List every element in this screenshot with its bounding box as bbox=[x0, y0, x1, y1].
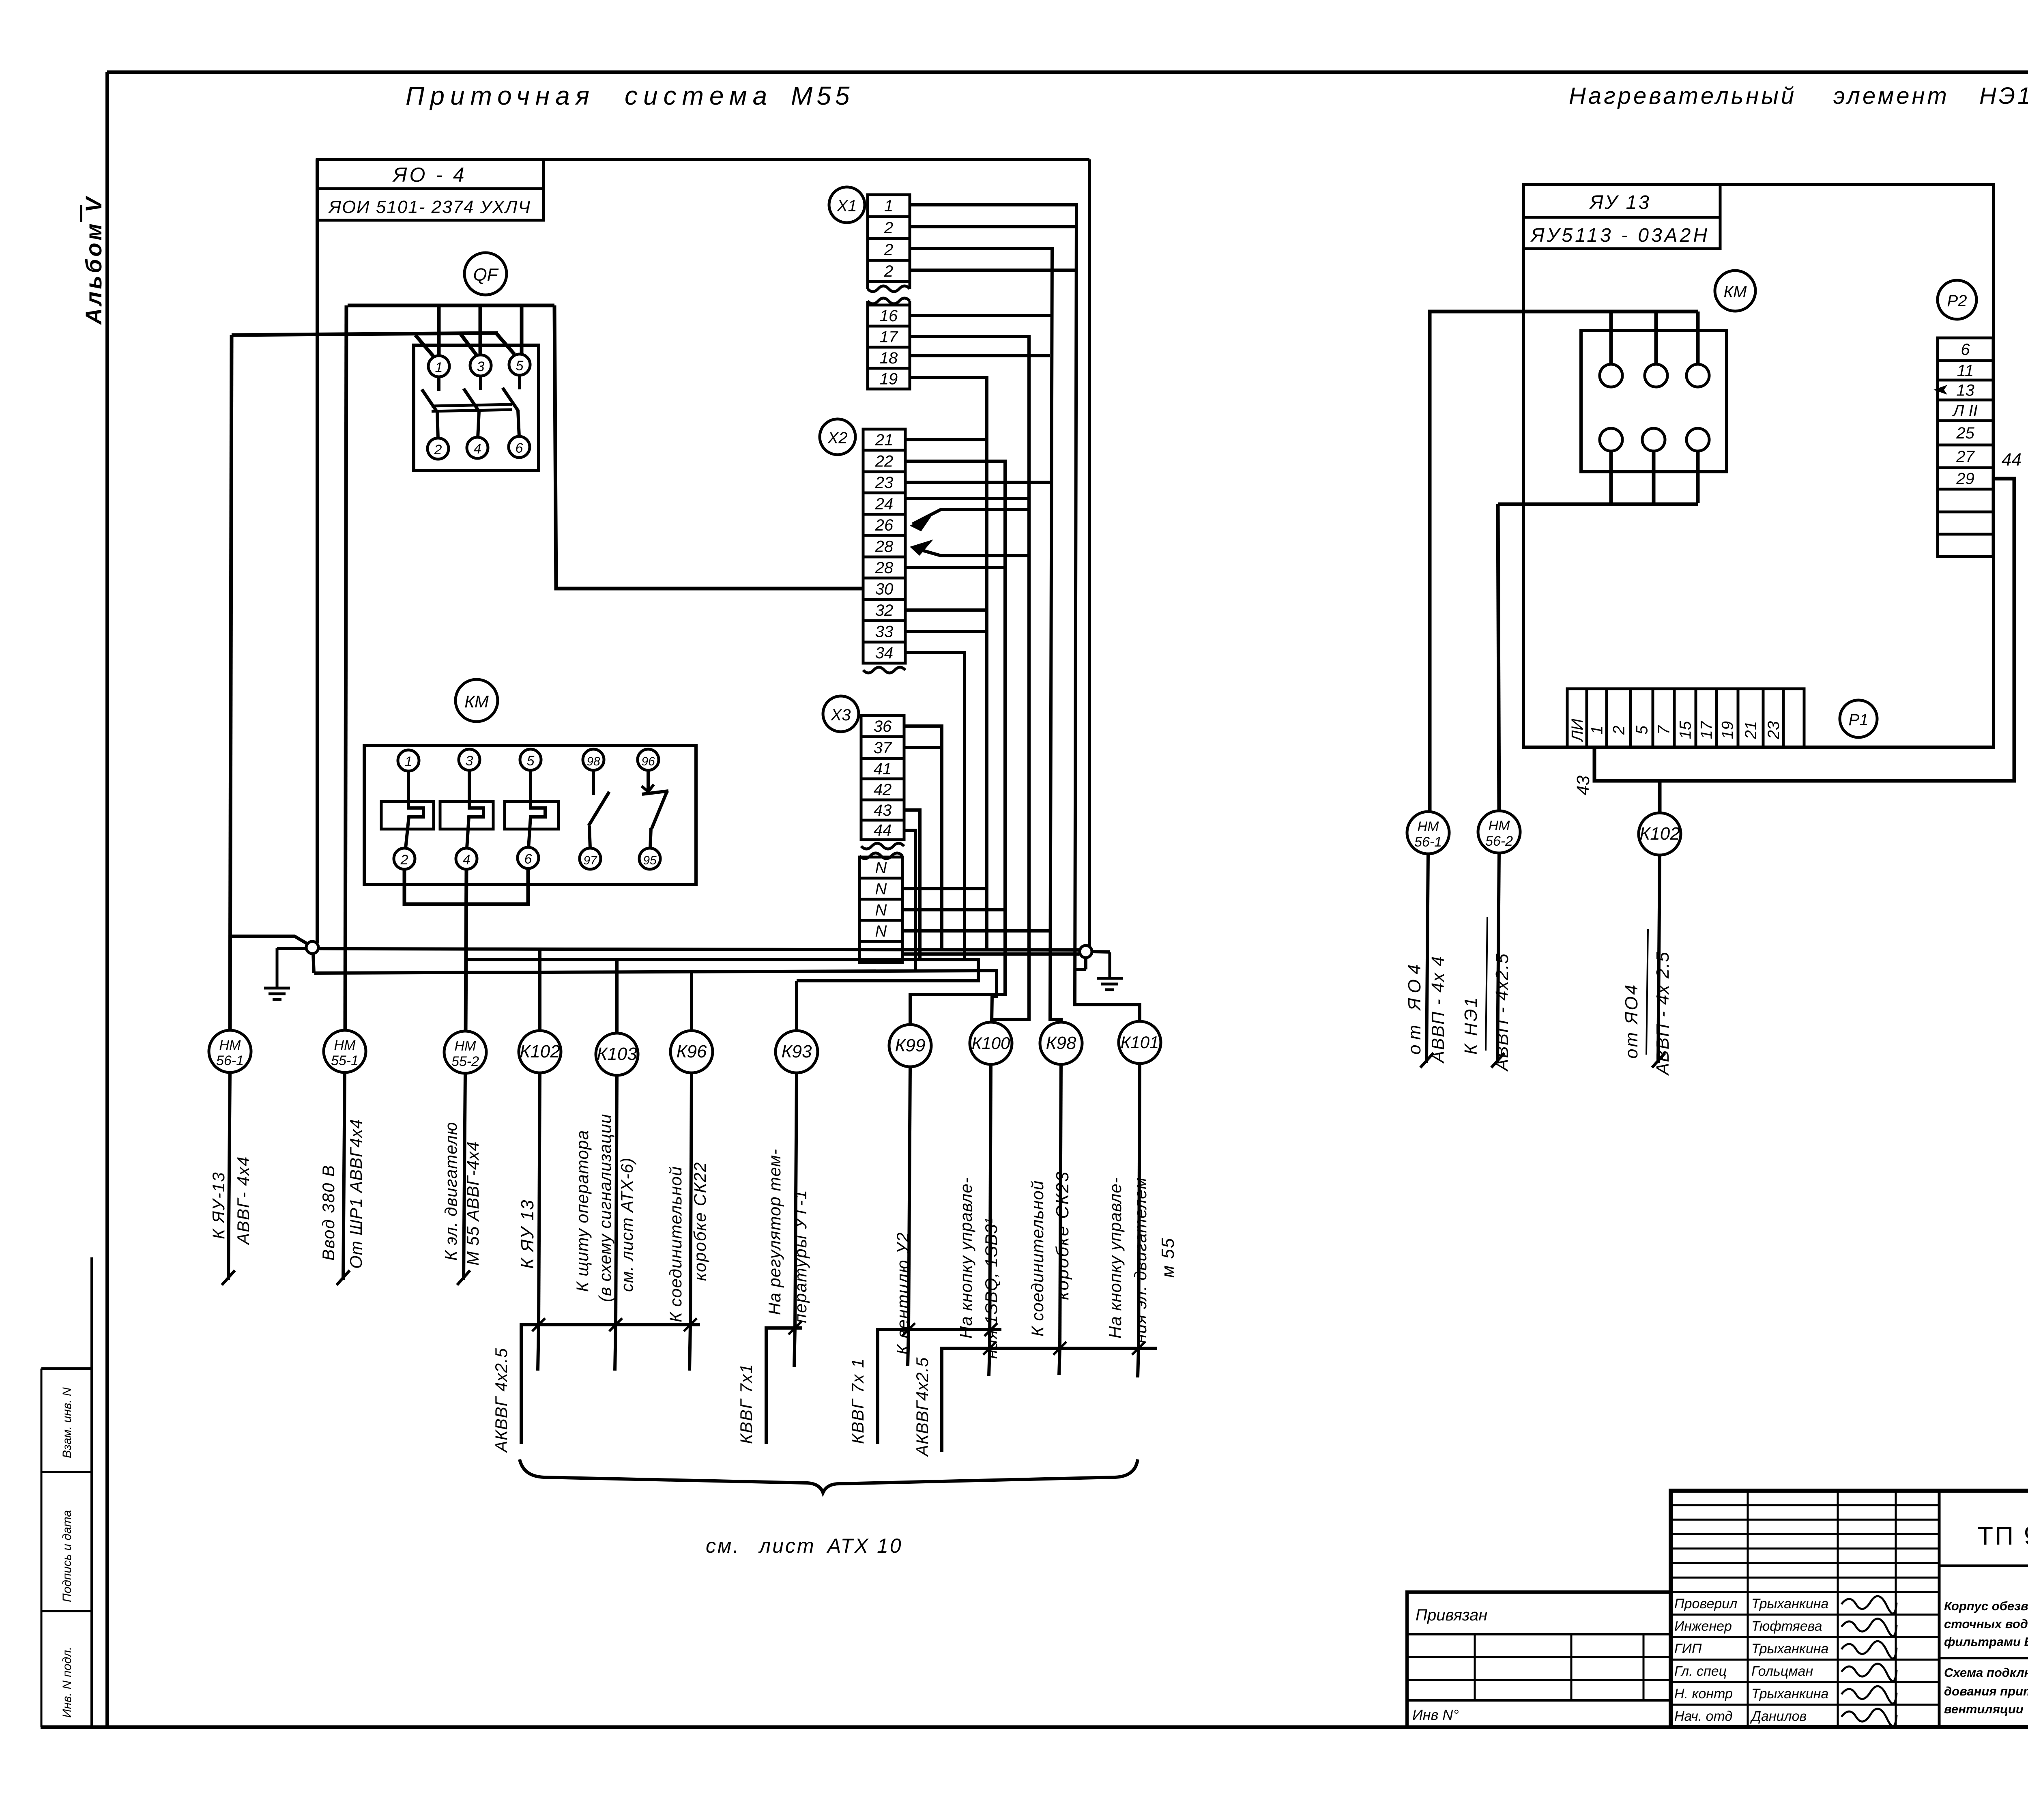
KM pin circle 5 bbox=[520, 749, 541, 770]
wire: K102 riser to bus A bbox=[538, 949, 541, 1031]
svg-text:2: 2 bbox=[434, 442, 442, 458]
terminal block X1 lower cells 16-19 bbox=[868, 305, 910, 389]
cable circle K103 bbox=[596, 1033, 638, 1075]
svg-text:фильтрами Бсх ВУ-40-30: фильтрами Бсх ВУ-40-30 bbox=[1944, 1635, 2028, 1649]
wire: X3 cell44 right then vertical down crossing buses bbox=[904, 830, 915, 972]
svg-text:4: 4 bbox=[463, 852, 470, 868]
terminal block X3 N cells bbox=[859, 857, 902, 963]
wire: X3 cell36 right then vertical down to bus A bbox=[904, 726, 942, 950]
cable tail K102 with label K YaU 13 bbox=[518, 1073, 540, 1325]
wire: phase drop 1 to QF pole 1 bbox=[437, 305, 441, 357]
svg-text:56-1: 56-1 bbox=[1414, 834, 1442, 850]
cable circle NM 56-1 (left) bbox=[209, 1030, 251, 1072]
terminal strip P2 bbox=[1938, 338, 1993, 557]
svg-text:Х1: Х1 bbox=[837, 197, 857, 215]
wire: X2 cell26 arrow line bbox=[910, 509, 1028, 531]
terminal block X2 cells bbox=[863, 429, 905, 663]
KM main contact pole 3 bbox=[505, 770, 559, 848]
svg-text:ТП 902-5-36.86: ТП 902-5-36.86 bbox=[1977, 1521, 2028, 1550]
wire: P2 cell29 to 44 loop down and around to P1 bbox=[1594, 479, 2014, 781]
wire: KM bottom pins to collector bus bbox=[1498, 451, 1698, 504]
cable circle K100 bbox=[970, 1022, 1012, 1064]
svg-text:30: 30 bbox=[875, 580, 894, 598]
svg-text:Альбом V: Альбом V bbox=[81, 195, 106, 325]
KM aux NC contact 96-95 bbox=[642, 770, 668, 848]
KM pin circle 3 bbox=[459, 749, 480, 770]
label box YaO-4 bbox=[317, 159, 544, 220]
contactor KM box (right) bbox=[1581, 331, 1727, 472]
svg-text:ния 1SBQ, 1SB3¹: ния 1SBQ, 1SB3¹ bbox=[982, 1218, 1001, 1359]
wire: KM 2-6 link below box bbox=[404, 868, 528, 904]
svg-text:Данилов: Данилов bbox=[1750, 1709, 1807, 1724]
terminal block X2 label circle bbox=[820, 419, 855, 455]
terminal strip P1 bbox=[1567, 689, 1804, 747]
terminal block X2 bottom tear bbox=[863, 667, 905, 673]
svg-text:ния эл. двигателем: ния эл. двигателем bbox=[1131, 1177, 1150, 1343]
wire: X1 cell16 branch bbox=[910, 314, 1051, 317]
svg-text:коробке СК23: коробке СК23 bbox=[1053, 1171, 1072, 1300]
svg-text:лист: лист bbox=[758, 1534, 816, 1557]
svg-text:25: 25 bbox=[1956, 424, 1974, 442]
svg-text:6: 6 bbox=[1961, 341, 1970, 359]
terminal block X3 tear bbox=[859, 843, 904, 859]
svg-text:см.: см. bbox=[706, 1534, 740, 1557]
wire: QF feed bus bbox=[348, 304, 554, 307]
svg-text:К102: К102 bbox=[1639, 824, 1680, 844]
svg-text:5: 5 bbox=[527, 753, 535, 769]
title block role texts bbox=[1674, 1596, 1828, 1724]
svg-text:К ЯУ 13: К ЯУ 13 bbox=[518, 1199, 537, 1269]
svg-text:К ЯУ-13: К ЯУ-13 bbox=[209, 1171, 228, 1239]
svg-text:37: 37 bbox=[874, 739, 892, 757]
svg-text:КВВГ 7х 1: КВВГ 7х 1 bbox=[848, 1358, 867, 1444]
svg-text:N: N bbox=[875, 922, 887, 940]
cable tail NM56-1 right with label ot YaO4 AVVP-4x4 bbox=[1405, 854, 1448, 1068]
wire: X1 cell2 branch bbox=[910, 225, 1076, 228]
cable circle NM 55-1 bbox=[324, 1030, 366, 1072]
svg-text:2: 2 bbox=[884, 219, 893, 237]
svg-text:96: 96 bbox=[641, 755, 655, 768]
cable tail K99 with label K ventilyu U2 bbox=[893, 1067, 912, 1355]
KM pin circle 96 bbox=[638, 749, 659, 770]
contactor KM label circle bbox=[455, 679, 498, 722]
svg-text:коробке СК22: коробке СК22 bbox=[690, 1162, 709, 1281]
svg-text:42: 42 bbox=[874, 781, 892, 799]
svg-text:28: 28 bbox=[875, 559, 894, 577]
svg-text:44: 44 bbox=[2002, 450, 2022, 470]
wire: X1 cell1 right then long vertical to K101 bbox=[910, 205, 1140, 1021]
svg-text:от ЯО4: от ЯО4 bbox=[1622, 983, 1641, 1059]
svg-text:Нагревательный: Нагревательный bbox=[1569, 83, 1796, 109]
cable tail NM55-2 with label k el. dvigatelyu M55 bbox=[441, 1073, 482, 1285]
svg-text:5: 5 bbox=[516, 358, 524, 374]
vertical text Album V bbox=[81, 195, 106, 325]
KM pin circle 2 bbox=[394, 848, 415, 869]
KM pin circle 4 bbox=[456, 848, 477, 869]
svg-text:Привязан: Привязан bbox=[1416, 1606, 1487, 1624]
wire: J1 stub down to bus B bbox=[313, 954, 314, 973]
KM right bottom pin circle c bbox=[1686, 428, 1709, 451]
gather line group 1 with cable label AKVVG 4x2.5 bbox=[492, 1318, 700, 1453]
KM pin circle 98 bbox=[583, 749, 604, 770]
svg-text:Схема подключения обору-: Схема подключения обору- bbox=[1944, 1665, 2028, 1680]
svg-text:От ШР1 АВВГ4х4: От ШР1 АВВГ4х4 bbox=[346, 1119, 365, 1269]
cable tail NM56-2 right with label K NE1 AVVP-4x2.5 bbox=[1461, 853, 1512, 1072]
svg-text:АВВП - 4х 2.5: АВВП - 4х 2.5 bbox=[1653, 951, 1673, 1076]
wire: K103 riser to bus M bbox=[615, 960, 619, 1033]
KM pin circle 1 bbox=[398, 750, 419, 771]
svg-text:ЯОИ 5101- 2374 УХЛЧ: ЯОИ 5101- 2374 УХЛЧ bbox=[328, 197, 531, 217]
svg-text:23: 23 bbox=[875, 474, 894, 492]
svg-text:Подпись и дата: Подпись и дата bbox=[60, 1510, 74, 1602]
KM right top pin circle b bbox=[1645, 364, 1667, 387]
wire: X2 cell33 branch bbox=[905, 630, 987, 633]
circuit breaker QF device box bbox=[414, 345, 539, 471]
svg-text:Проверил: Проверил bbox=[1674, 1596, 1737, 1612]
svg-text:1: 1 bbox=[405, 754, 412, 769]
contactor KM box bbox=[364, 746, 696, 885]
svg-text:Л II: Л II bbox=[1952, 402, 1978, 420]
svg-text:(в схему сигнализации: (в схему сигнализации bbox=[595, 1114, 614, 1302]
svg-text:27: 27 bbox=[1956, 448, 1975, 466]
wire: K102 right riser bbox=[1658, 781, 1662, 813]
svg-text:АВВП - 4х 4: АВВП - 4х 4 bbox=[1428, 956, 1448, 1064]
svg-text:ЯУ5113 - 03А2Н: ЯУ5113 - 03А2Н bbox=[1530, 225, 1710, 246]
cable circle K98 bbox=[1040, 1022, 1082, 1064]
svg-text:1: 1 bbox=[1588, 726, 1606, 735]
QF pin circle 4 bbox=[467, 437, 488, 458]
svg-text:К103: К103 bbox=[597, 1044, 637, 1064]
svg-text:КМ: КМ bbox=[464, 692, 489, 711]
svg-text:26: 26 bbox=[875, 516, 894, 534]
wire: phase drop 2 to QF pole 3 bbox=[479, 305, 482, 356]
svg-text:33: 33 bbox=[875, 623, 894, 641]
svg-text:М 55 АВВГ-4х4: М 55 АВВГ-4х4 bbox=[463, 1141, 482, 1266]
svg-text:Нач. отд: Нач. отд bbox=[1674, 1709, 1732, 1724]
cable circle K93 bbox=[776, 1031, 818, 1073]
svg-text:К соединительной: К соединительной bbox=[666, 1166, 685, 1322]
svg-text:вентиляции: вентиляции bbox=[1944, 1702, 2024, 1716]
svg-text:К100: К100 bbox=[972, 1034, 1010, 1053]
KM main contact pole 1 bbox=[381, 771, 434, 848]
text sm. list ATKh 10 bbox=[706, 1534, 903, 1557]
QF pin circle 2 bbox=[428, 438, 449, 459]
wire: X2 cell28b branch bbox=[905, 566, 1005, 569]
title block left columns bbox=[1748, 1491, 1896, 1727]
cable circle K99 bbox=[889, 1025, 931, 1067]
svg-text:23: 23 bbox=[1765, 721, 1783, 740]
wire: X3 N3 branch bbox=[902, 929, 1051, 933]
wire: diagonal into QF pole 3 bbox=[461, 334, 477, 356]
wire: X1 cell19 right then long vertical to bus A bbox=[910, 378, 987, 950]
svg-text:КВВГ 7х1: КВВГ 7х1 bbox=[737, 1363, 756, 1444]
ground symbol left bbox=[276, 948, 279, 988]
svg-text:43: 43 bbox=[874, 801, 892, 819]
svg-text:Тюфтяева: Тюфтяева bbox=[1751, 1619, 1822, 1634]
wire: diagonal into QF pole 5 bbox=[496, 333, 514, 354]
svg-text:На кнопку управле-: На кнопку управле- bbox=[1106, 1177, 1125, 1339]
wire: X2 cell34 right then long vertical to gather bus M bbox=[905, 653, 965, 960]
svg-text:ЯО - 4: ЯО - 4 bbox=[392, 163, 466, 186]
svg-text:4: 4 bbox=[474, 441, 481, 457]
svg-text:м 55: м 55 bbox=[1158, 1238, 1178, 1278]
wire: K96 riser to bus B bbox=[690, 971, 693, 1031]
svg-text:Х3: Х3 bbox=[831, 706, 851, 724]
wire: X1 cell17 right then long vertical to K100 bbox=[910, 337, 1029, 1019]
wire: X3 N2 right then down to K99 gather? vertical 2478 already: branch only bbox=[902, 908, 1005, 911]
relay P2 label circle bbox=[1938, 280, 1976, 319]
cable circle K102 (left) bbox=[519, 1031, 561, 1073]
wire: X1 cell2b branch bbox=[910, 269, 1075, 272]
svg-text:На кнопку управле-: На кнопку управле- bbox=[956, 1177, 975, 1339]
svg-text:Приточная: Приточная bbox=[406, 81, 595, 110]
svg-text:95: 95 bbox=[643, 854, 657, 867]
cable tail K103 with label K schitu operatora bbox=[573, 1075, 636, 1325]
svg-text:N: N bbox=[875, 901, 887, 919]
svg-text:18: 18 bbox=[880, 349, 898, 367]
wire: X3 cell37 branch bbox=[904, 746, 941, 749]
svg-text:16: 16 bbox=[880, 307, 898, 325]
cable tail K102 right with label ot YaO4 AVVP-4x2.5 bbox=[1622, 855, 1673, 1076]
svg-text:2: 2 bbox=[400, 852, 408, 868]
svg-text:7: 7 bbox=[1655, 725, 1673, 735]
title block left extension table Privyazan bbox=[1407, 1592, 1671, 1727]
svg-text:2: 2 bbox=[1610, 726, 1628, 735]
circuit breaker QF label circle bbox=[464, 253, 507, 295]
wire: X2 cell28 arrow line bbox=[910, 539, 1027, 556]
svg-text:Гл. спец: Гл. спец bbox=[1674, 1664, 1727, 1679]
gather line group 4 with cable label AKVVG4x2.5 bbox=[913, 1342, 1157, 1457]
KM pin circle 6 bbox=[518, 847, 539, 868]
svg-text:Инженер: Инженер bbox=[1674, 1619, 1732, 1634]
wire: X1 cell2a right then long vertical to K98 bbox=[910, 249, 1061, 1022]
wire: X2 cell23 branch bbox=[905, 481, 1050, 484]
svg-text:3: 3 bbox=[477, 359, 485, 374]
svg-text:15: 15 bbox=[1677, 721, 1695, 739]
svg-text:НМ: НМ bbox=[219, 1038, 241, 1053]
svg-text:НМ: НМ bbox=[1489, 818, 1510, 834]
svg-text:13: 13 bbox=[1956, 382, 1974, 400]
svg-text:21: 21 bbox=[1742, 721, 1760, 740]
wire: K93 riser bbox=[795, 981, 798, 1031]
terminal block X3 cells 36-44 bbox=[861, 716, 904, 840]
svg-text:см. лист АТХ-6): см. лист АТХ-6) bbox=[617, 1157, 636, 1292]
svg-text:К102: К102 bbox=[520, 1042, 560, 1061]
svg-text:44: 44 bbox=[874, 821, 892, 839]
curly brace over cable group bbox=[520, 1459, 1138, 1493]
KM right top pin circle a bbox=[1600, 364, 1622, 387]
gather line group 3 with cable label KVVG 7x1 second bbox=[848, 1323, 1001, 1444]
cable circle K101 bbox=[1119, 1021, 1161, 1064]
QF pole 1 blade bbox=[422, 377, 439, 439]
QF pin circle 1 bbox=[428, 356, 449, 377]
panel box YaU13 outline bbox=[1523, 185, 1994, 747]
svg-text:1: 1 bbox=[435, 360, 443, 375]
svg-text:6: 6 bbox=[516, 440, 523, 456]
cable circle K96 bbox=[670, 1031, 713, 1073]
svg-text:98: 98 bbox=[586, 755, 600, 768]
wire: from QF bus right end down and right to X2 cell 30 bbox=[554, 305, 863, 589]
wire: KM pin 4 down to cable NM55-2 bbox=[466, 869, 466, 1030]
title block upper small rows bbox=[1671, 1491, 2028, 1727]
QF trip tie bar bbox=[432, 404, 512, 411]
gather line group 2 with cable label KVVG 7x1 bbox=[737, 1321, 802, 1444]
KM pin circle 97 bbox=[580, 848, 601, 869]
svg-text:сточных вод с 6 вакуум: сточных вод с 6 вакуум bbox=[1944, 1617, 2028, 1631]
svg-text:3: 3 bbox=[466, 753, 473, 769]
svg-text:Инв. N подл.: Инв. N подл. bbox=[60, 1647, 74, 1718]
svg-text:29: 29 bbox=[1956, 470, 1974, 488]
terminal block X1 tear bbox=[868, 281, 910, 305]
svg-text:НМ: НМ bbox=[1418, 819, 1439, 834]
svg-text:К эл. двигателю: К эл. двигателю bbox=[441, 1122, 460, 1261]
svg-text:Трыханкина: Трыханкина bbox=[1751, 1686, 1828, 1702]
svg-text:55-1: 55-1 bbox=[331, 1053, 359, 1068]
svg-text:пературы УТ-1: пературы УТ-1 bbox=[791, 1189, 810, 1323]
svg-text:19: 19 bbox=[1719, 721, 1737, 739]
svg-text:41: 41 bbox=[874, 760, 892, 778]
svg-text:ГИП: ГИП bbox=[1674, 1641, 1702, 1657]
terminal block X1 upper cells 1-2-2-2 bbox=[868, 195, 910, 281]
svg-text:28: 28 bbox=[875, 538, 894, 556]
svg-text:Х2: Х2 bbox=[827, 429, 848, 447]
wire: drop to KM top pin c bbox=[1696, 312, 1700, 364]
svg-text:К93: К93 bbox=[782, 1042, 812, 1061]
svg-text:Корпус обезвоживания осадка: Корпус обезвоживания осадка bbox=[1944, 1599, 2028, 1613]
QF pin circle 6 bbox=[509, 436, 530, 458]
svg-text:56-2: 56-2 bbox=[1485, 834, 1513, 849]
cable circle K102 (right) bbox=[1639, 813, 1681, 855]
svg-text:К99: К99 bbox=[895, 1036, 926, 1055]
wire: X3 N1 branch bbox=[902, 887, 987, 890]
svg-text:1: 1 bbox=[884, 197, 893, 215]
svg-text:2: 2 bbox=[884, 262, 893, 280]
svg-text:дования приточной системы: дования приточной системы bbox=[1944, 1684, 2028, 1698]
cable tail NM56-1 with label K YaU-13 / AVVG-4x4 bbox=[209, 1072, 253, 1285]
cable tail NM55-1 with label Vvod 380V bbox=[319, 1072, 365, 1285]
svg-text:56-1: 56-1 bbox=[216, 1053, 244, 1068]
svg-text:элемент: элемент bbox=[1833, 83, 1949, 109]
svg-text:НЭ1: НЭ1 bbox=[1979, 83, 2028, 109]
svg-text:ЯУ 13: ЯУ 13 bbox=[1589, 192, 1651, 213]
svg-text:КМ: КМ bbox=[1724, 283, 1747, 301]
svg-text:19: 19 bbox=[880, 370, 898, 388]
svg-text:34: 34 bbox=[875, 644, 894, 662]
svg-text:N: N bbox=[875, 880, 887, 898]
svg-text:К96: К96 bbox=[677, 1042, 707, 1061]
panel box YaO-4 outline bbox=[317, 159, 1089, 947]
cable circle NM 56-2 (right) bbox=[1478, 811, 1520, 853]
arrow mark at P2 cell 13 bbox=[1933, 385, 1947, 395]
QF pole 2 blade bbox=[464, 376, 481, 438]
wire: drop to KM top pin a bbox=[1609, 312, 1613, 364]
svg-text:17: 17 bbox=[1698, 720, 1716, 739]
KM right bottom pin circle a bbox=[1600, 428, 1622, 451]
cable tail K96 with label K soedinitelnoy korobke SK22 bbox=[666, 1073, 709, 1325]
wire: X1 cell18 branch bbox=[910, 354, 1050, 357]
svg-text:17: 17 bbox=[880, 328, 898, 346]
svg-text:НМ: НМ bbox=[334, 1038, 356, 1053]
svg-text:АВВГ- 4х4: АВВГ- 4х4 bbox=[234, 1156, 253, 1246]
title block project name bbox=[1939, 1592, 2028, 1727]
title block stamp outer bbox=[1671, 1491, 2028, 1727]
svg-text:Гольцман: Гольцман bbox=[1751, 1664, 1813, 1679]
svg-text:55-2: 55-2 bbox=[451, 1054, 479, 1069]
wire: X2 cell22 right then long vertical to K99 bbox=[905, 461, 1005, 1024]
svg-text:Взам. инв. N: Взам. инв. N bbox=[60, 1387, 74, 1458]
svg-text:На регулятор тем-: На регулятор тем- bbox=[765, 1149, 784, 1315]
svg-text:К НЭ1: К НЭ1 bbox=[1461, 996, 1481, 1055]
svg-text:АВВП - 4х2.5: АВВП - 4х2.5 bbox=[1492, 953, 1512, 1072]
wire: phase drop 3 to QF pole 5 bbox=[520, 305, 524, 355]
wire: NM56-1 riser feeding KM (right) bbox=[1430, 312, 1698, 812]
wire: X2 cell24 branch bbox=[905, 497, 1030, 500]
wire: diagonal into QF pole 1 bbox=[415, 335, 434, 357]
svg-text:К щиту оператора: К щиту оператора bbox=[573, 1130, 592, 1292]
svg-text:36: 36 bbox=[874, 718, 892, 735]
cable circle NM 56-1 (right) bbox=[1407, 812, 1449, 854]
wire: left vertical from bus down to cable NM55-1 bbox=[345, 305, 346, 1030]
svg-text:43: 43 bbox=[1573, 775, 1593, 795]
KM main contact pole 2 bbox=[440, 770, 493, 848]
junction node J2 with ground bbox=[1075, 945, 1110, 969]
wire: horizontal line y=826 from NM56-1 riser to QF poles bbox=[232, 333, 498, 335]
terminal block X1 label circle bbox=[829, 187, 865, 223]
contactor KM label circle (right) bbox=[1715, 271, 1755, 311]
svg-text:22: 22 bbox=[875, 453, 894, 471]
svg-text:К98: К98 bbox=[1046, 1033, 1076, 1053]
title block name rows bbox=[1671, 1615, 1939, 1705]
label box YaU13 bbox=[1523, 185, 1720, 249]
svg-text:6: 6 bbox=[524, 851, 532, 867]
wire: collector bus down to cable NM56-2 bbox=[1498, 504, 1499, 812]
svg-text:QF: QF bbox=[473, 265, 498, 285]
svg-text:Инв N°: Инв N° bbox=[1412, 1706, 1459, 1723]
svg-text:Трыханкина: Трыханкина bbox=[1751, 1641, 1828, 1657]
junction node J1 with ground bbox=[231, 936, 318, 954]
cable tail K93 with label Na regulyator temperatury UT-1 bbox=[765, 1073, 810, 1328]
bus wire B bottom edge to K100 bbox=[314, 971, 997, 1023]
QF pin circle 3 bbox=[470, 355, 491, 376]
svg-text:97: 97 bbox=[583, 854, 597, 867]
svg-text:11: 11 bbox=[1957, 362, 1974, 380]
cable circle NM 55-2 bbox=[444, 1031, 486, 1073]
svg-text:Трыханкина: Трыханкина bbox=[1751, 1596, 1828, 1612]
svg-text:21: 21 bbox=[875, 431, 894, 449]
bus wire M from NM55-2 riser to K93 bbox=[466, 960, 978, 981]
svg-text:Р1: Р1 bbox=[1849, 711, 1869, 729]
svg-text:Р2: Р2 bbox=[1947, 292, 1967, 310]
svg-text:АТХ 10: АТХ 10 bbox=[826, 1534, 903, 1557]
wire: X2 cell21 branch bbox=[905, 438, 988, 441]
KM right bottom pin circle b bbox=[1642, 428, 1665, 451]
relay P1 label circle bbox=[1840, 700, 1877, 737]
svg-text:К101: К101 bbox=[1121, 1033, 1159, 1052]
svg-text:N: N bbox=[875, 859, 887, 877]
title block signatures bbox=[1841, 1596, 1897, 1726]
svg-text:2: 2 bbox=[884, 241, 893, 259]
QF pin circle 5 bbox=[509, 354, 530, 375]
cable tail K100 with label Na knopku upravleniya 1SBQ bbox=[956, 1064, 1001, 1359]
svg-text:АКВВГ4х2.5: АКВВГ4х2.5 bbox=[913, 1357, 932, 1457]
svg-text:М55: М55 bbox=[791, 81, 854, 110]
svg-text:АКВВГ 4х2.5: АКВВГ 4х2.5 bbox=[492, 1348, 511, 1453]
cable tail K101 with label Na knopku upravleniya el dvigatelem M55 bbox=[1106, 1064, 1178, 1348]
bus wire A from J1 to J2 bbox=[318, 949, 1080, 950]
wire: X3 cell43 right then vertical down to N bus bbox=[904, 810, 920, 960]
cable tail K98 with label K soedinitelnoy korobke SK23 bbox=[1028, 1064, 1072, 1348]
wire: N4 bus bbox=[902, 952, 1079, 956]
